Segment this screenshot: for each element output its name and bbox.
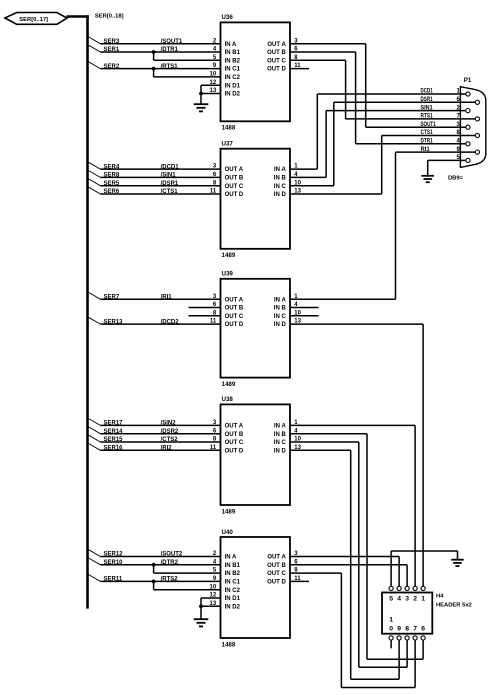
svg-text:7: 7 <box>413 626 417 633</box>
stub U39 pin 10 <box>290 315 319 317</box>
svg-text:IN A: IN A <box>274 167 286 173</box>
junction node /RTS2 branch <box>152 580 221 590</box>
IC U36 (1488 quad line driver) <box>210 14 302 131</box>
svg-text:/RI1: /RI1 <box>161 294 173 300</box>
svg-text:1489: 1489 <box>222 252 236 259</box>
wire U40 pin 6 OUT B to H4 pin 3 <box>290 565 407 587</box>
ground at H4 pin 5 <box>451 560 464 566</box>
wire SER16 /RI2 from U38 pin 11 <box>89 444 221 452</box>
svg-text:IN D: IN D <box>274 448 287 454</box>
svg-text:IN C: IN C <box>274 314 287 320</box>
svg-text:IN B2: IN B2 <box>225 58 241 64</box>
wire P1 row SOUT1 pin 3 <box>366 122 466 128</box>
svg-text:/SIN2: /SIN2 <box>161 421 177 427</box>
wire SER6 /CTS1 from U37 pin 11 <box>89 187 221 195</box>
H4 top pin circles <box>389 586 425 590</box>
wire U36 pin 12 to ground <box>201 85 221 104</box>
wire SER17 /SIN2 from U38 pin 3 <box>89 419 221 427</box>
stub U40 pin 11 <box>290 580 309 582</box>
svg-text:HEADER 5x2: HEADER 5x2 <box>436 603 472 609</box>
svg-text:SER2: SER2 <box>104 64 120 70</box>
svg-text:1488: 1488 <box>222 125 236 132</box>
wire U38 pin 13 IN D to H4 pin 9 <box>290 450 399 679</box>
wire U37 pin 13 IN D to P1 CTS1 <box>290 136 382 195</box>
svg-text:SOUT1: SOUT1 <box>421 122 437 128</box>
wire SER4 /DCD1 from U37 pin 3 <box>89 162 221 170</box>
svg-text:IN A: IN A <box>225 555 237 561</box>
wire P1 row DCD1 pin 1 <box>317 89 466 95</box>
thick bus wire from flag to vertical bus <box>67 15 89 18</box>
svg-text:SER17: SER17 <box>104 421 124 427</box>
svg-text:/CTS1: /CTS1 <box>161 189 179 195</box>
svg-text:SER13: SER13 <box>104 319 124 325</box>
svg-text:P1: P1 <box>464 77 472 84</box>
IC U39 (1489 quad line receiver) <box>210 271 302 388</box>
svg-text:0: 0 <box>389 626 393 633</box>
svg-text:IN B1: IN B1 <box>225 563 241 569</box>
wire U39 pin 13 IN D to H4 pin 1 <box>290 324 423 586</box>
wire SER13 /DCD2 from U39 pin 11 <box>89 317 221 325</box>
junction node /RTS1 branch <box>152 67 221 77</box>
svg-text:H4: H4 <box>436 593 444 599</box>
wire U38 pin 10 IN C to H4 pin 8 <box>290 442 407 667</box>
svg-text:U36: U36 <box>222 14 234 21</box>
svg-text:/SIN1: /SIN1 <box>161 173 177 179</box>
wire U39 pin 1 IN A to P1 RI1 <box>290 152 396 299</box>
wire SER15 /CTS2 from U38 pin 8 <box>89 435 221 443</box>
wire SER10 /DTR2 to U40 pin 4 <box>89 558 221 566</box>
wire U36 pin 13 to ground <box>199 92 220 96</box>
svg-text:SER16: SER16 <box>104 446 124 452</box>
svg-text:1489: 1489 <box>222 381 236 388</box>
svg-text:RI1: RI1 <box>421 147 431 153</box>
svg-text:SER4: SER4 <box>104 164 120 170</box>
svg-text:/DCD1: /DCD1 <box>161 164 180 170</box>
svg-text:IN C1: IN C1 <box>225 67 241 73</box>
wire U40 pin 12 to ground <box>201 598 221 619</box>
wire SER14 /DSR2 from U38 pin 6 <box>89 427 221 435</box>
wire P1 row DSR1 pin 6 <box>334 97 476 103</box>
svg-text:/DTR2: /DTR2 <box>161 560 179 566</box>
svg-text:SER5: SER5 <box>104 181 120 187</box>
H4 bottom pin circles <box>389 636 425 640</box>
junction node /DTR1 branch <box>152 50 221 60</box>
wire U40 pin 13 to ground <box>199 604 220 608</box>
svg-text:/DSR1: /DSR1 <box>161 181 179 187</box>
svg-text:U38: U38 <box>222 396 234 403</box>
wire U37 pin 4 IN B to P1 SIN1 <box>290 111 326 178</box>
svg-text:OUT C: OUT C <box>267 58 286 64</box>
svg-text:DCD1: DCD1 <box>421 89 434 95</box>
svg-text:OUT D: OUT D <box>225 192 244 198</box>
svg-text:IN D1: IN D1 <box>225 596 241 602</box>
wire SER5 /DSR1 from U37 pin 8 <box>89 179 221 187</box>
svg-text:IN C2: IN C2 <box>225 75 241 81</box>
stub H4 pin 10 <box>390 640 392 648</box>
svg-text:DTR1: DTR1 <box>421 139 434 145</box>
svg-text:OUT C: OUT C <box>267 571 286 577</box>
svg-text:IN A: IN A <box>274 297 286 303</box>
stub U39 pin 8 <box>189 315 221 317</box>
svg-text:OUT D: OUT D <box>267 67 286 73</box>
svg-text:IN A: IN A <box>274 424 286 430</box>
svg-text:OUT B: OUT B <box>225 306 244 312</box>
svg-text:OUT B: OUT B <box>225 176 244 182</box>
wire P1 row SIN1 pin 2 <box>326 105 466 111</box>
ground below U40 inputs <box>194 619 209 626</box>
svg-text:2: 2 <box>413 596 417 603</box>
svg-text:IN B1: IN B1 <box>225 50 241 56</box>
stub U39 pin 4 <box>290 307 319 309</box>
svg-text:CTS1: CTS1 <box>421 130 434 136</box>
svg-text:IN C: IN C <box>274 440 287 446</box>
header H4 HEADER 5x2 <box>382 593 472 634</box>
svg-text:OUT C: OUT C <box>225 440 244 446</box>
svg-text:OUT B: OUT B <box>225 432 244 438</box>
svg-text:SER8: SER8 <box>104 173 120 179</box>
svg-text:SER14: SER14 <box>104 429 124 435</box>
svg-text:/SOUT1: /SOUT1 <box>161 39 183 45</box>
wire U40 pin 3 OUT A to H4 pin 4 <box>290 557 399 587</box>
svg-text:OUT A: OUT A <box>267 42 286 48</box>
wire SER2 /RTS1 to U36 pin 9 <box>89 62 221 70</box>
wire SER1 /DTR1 to U36 pin 4 <box>89 45 221 53</box>
svg-text:4: 4 <box>397 596 401 603</box>
svg-text:IN B: IN B <box>274 432 287 438</box>
wire U36 pin 6 OUT B to P1 DTR1 <box>290 52 356 144</box>
svg-text:9: 9 <box>397 626 401 633</box>
svg-text:1488: 1488 <box>222 641 236 648</box>
svg-text:OUT A: OUT A <box>225 297 244 303</box>
wire U40 pin 8 OUT C to H4 pin 7 <box>290 573 415 687</box>
IC U37 (1489 quad line receiver) <box>210 141 302 260</box>
svg-text:SER[0..17]: SER[0..17] <box>19 17 48 23</box>
svg-text:SER15: SER15 <box>104 437 124 443</box>
connector P1 DB9 <box>448 77 486 181</box>
svg-text:1489: 1489 <box>222 508 236 515</box>
svg-text:1: 1 <box>389 617 393 624</box>
svg-text:DB9=: DB9= <box>448 175 464 181</box>
svg-text:IN C1: IN C1 <box>225 580 241 586</box>
svg-text:OUT A: OUT A <box>225 424 244 430</box>
ground at P1 pin 5 <box>421 176 434 182</box>
wire U36 pin 3 OUT A to P1 SOUT1 <box>290 44 366 128</box>
svg-text:IN B: IN B <box>274 306 287 312</box>
svg-text:IN D: IN D <box>274 192 287 198</box>
wire P1 row RTS1 pin 7 <box>346 114 476 120</box>
wire P1 row RI1 pin 9 <box>396 147 476 153</box>
svg-text:OUT B: OUT B <box>267 563 286 569</box>
wire U37 pin 1 IN A to P1 DCD1 <box>290 94 317 169</box>
wire SER8 /SIN1 from U37 pin 6 <box>89 171 221 179</box>
svg-text:6: 6 <box>421 626 425 633</box>
svg-text:IN B2: IN B2 <box>225 571 241 577</box>
svg-text:/DCD2: /DCD2 <box>161 319 180 325</box>
svg-text:U40: U40 <box>222 529 234 536</box>
svg-text:8: 8 <box>405 626 409 633</box>
svg-text:3: 3 <box>405 596 409 603</box>
wire P1 pin 5 to ground <box>428 155 466 176</box>
svg-text:U39: U39 <box>222 271 234 278</box>
svg-text:OUT A: OUT A <box>225 167 244 173</box>
wire U38 pin 1 IN A to H4 pin 2 <box>290 425 415 586</box>
svg-text:U37: U37 <box>222 141 234 148</box>
svg-text:/RTS2: /RTS2 <box>161 577 179 583</box>
junction node /DTR2 branch <box>152 563 221 573</box>
svg-text:/DTR1: /DTR1 <box>161 47 179 53</box>
svg-text:IN D2: IN D2 <box>225 92 241 98</box>
svg-text:OUT C: OUT C <box>225 314 244 320</box>
svg-text:OUT D: OUT D <box>225 448 244 454</box>
svg-text:5: 5 <box>389 596 393 603</box>
svg-text:1: 1 <box>421 596 425 603</box>
svg-text:SIN1: SIN1 <box>421 105 434 111</box>
svg-text:OUT D: OUT D <box>225 322 244 328</box>
wire P1 row DTR1 pin 4 <box>356 139 466 145</box>
svg-text:OUT B: OUT B <box>267 50 286 56</box>
svg-text:SER10: SER10 <box>104 560 124 566</box>
IC U40 (1488 quad line driver) <box>210 529 302 649</box>
svg-text:IN C2: IN C2 <box>225 588 241 594</box>
stub U36 pin 11 <box>290 68 309 70</box>
svg-text:DSR1: DSR1 <box>421 97 434 103</box>
wire U38 pin 4 IN B to H4 pin 6 <box>290 434 423 660</box>
svg-text:OUT C: OUT C <box>225 184 244 190</box>
svg-text:IN D: IN D <box>274 322 287 328</box>
wire SER7 /RI1 from U39 pin 3 <box>89 292 221 300</box>
wire U37 pin 10 IN C to P1 DSR1 <box>290 102 334 185</box>
svg-text:IN B: IN B <box>274 176 287 182</box>
svg-text:/CTS2: /CTS2 <box>161 437 179 443</box>
wire U36 pin 8 OUT C to P1 RTS1 <box>290 60 346 119</box>
svg-text:IN A: IN A <box>225 42 237 48</box>
svg-text:OUT D: OUT D <box>267 580 286 586</box>
stub U39 pin 6 <box>189 307 221 309</box>
svg-text:SER6: SER6 <box>104 189 120 195</box>
svg-text:OUT A: OUT A <box>267 555 286 561</box>
svg-text:SER11: SER11 <box>104 577 123 583</box>
svg-text:IN C: IN C <box>274 184 287 190</box>
vertical bus SER <box>86 15 89 608</box>
svg-text:SER7: SER7 <box>104 294 120 300</box>
svg-text:/SOUT2: /SOUT2 <box>161 552 183 558</box>
svg-text:SER1: SER1 <box>104 47 120 53</box>
svg-text:SER3: SER3 <box>104 39 120 45</box>
wire H4 pin 5 to ground <box>391 551 457 586</box>
P1 pin sockets <box>466 92 480 163</box>
wire SER11 /RTS2 to U40 pin 9 <box>89 575 221 583</box>
svg-text:/RTS1: /RTS1 <box>161 64 179 70</box>
svg-text:IN D2: IN D2 <box>225 604 241 610</box>
ground below U36 inputs <box>194 104 209 111</box>
wire SER3 /SOUT1 to U36 pin 2 <box>89 37 221 45</box>
svg-text:RTS1: RTS1 <box>421 114 434 120</box>
bus name label SER[0..18] <box>95 14 124 20</box>
svg-text:IN D1: IN D1 <box>225 83 241 89</box>
svg-text:SER12: SER12 <box>104 552 124 558</box>
bus entry flag SER[0..17] <box>5 13 67 25</box>
svg-text:SER[0..18]: SER[0..18] <box>95 14 124 20</box>
wire SER12 /SOUT2 to U40 pin 2 <box>89 550 221 558</box>
svg-text:/DSR2: /DSR2 <box>161 429 179 435</box>
svg-text:/RI2: /RI2 <box>161 446 173 452</box>
wire P1 row CTS1 pin 8 <box>382 130 476 136</box>
IC U38 (1489 quad line receiver) <box>210 396 302 515</box>
